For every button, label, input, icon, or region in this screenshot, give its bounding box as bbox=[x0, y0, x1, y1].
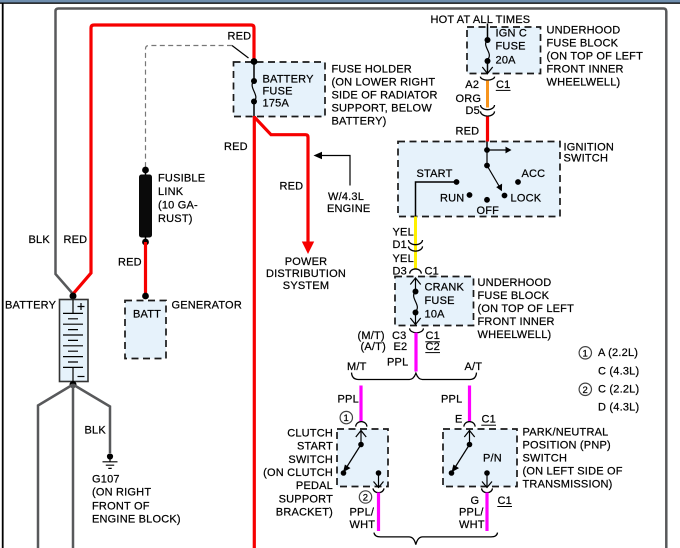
split brace M/T A/T bbox=[352, 373, 477, 380]
svg-text:RUST): RUST) bbox=[158, 213, 193, 225]
svg-text:BATTERY: BATTERY bbox=[263, 74, 315, 86]
wire BLK negative to ground bbox=[73, 385, 110, 454]
wire PPL/WHT from PNP switch bbox=[485, 493, 488, 532]
svg-text:A/T: A/T bbox=[465, 361, 483, 373]
svg-text:ENGINE BLOCK): ENGINE BLOCK) bbox=[92, 514, 181, 526]
svg-text:YEL: YEL bbox=[393, 253, 414, 265]
svg-text:M/T: M/T bbox=[347, 361, 367, 373]
ignition switch box bbox=[398, 142, 560, 217]
leader line to fuse node bbox=[232, 46, 249, 59]
svg-text:D1: D1 bbox=[393, 239, 407, 251]
PNP switch output terminal bbox=[484, 470, 490, 476]
svg-text:LOCK: LOCK bbox=[511, 193, 542, 205]
inline connector D1 arcs bbox=[409, 240, 423, 251]
svg-text:START: START bbox=[417, 168, 453, 180]
svg-text:D (4.3L): D (4.3L) bbox=[598, 401, 639, 413]
underhood fuse block box (CRANK FUSE) bbox=[395, 277, 474, 326]
svg-text:RED: RED bbox=[118, 257, 142, 269]
svg-text:10A: 10A bbox=[425, 309, 446, 321]
svg-text:D3: D3 bbox=[393, 265, 407, 277]
svg-text:PPL: PPL bbox=[387, 356, 408, 368]
wire RED to ignition switch bbox=[486, 117, 489, 142]
wire RED branch to power distribution bbox=[254, 117, 308, 244]
svg-text:PARK/NEUTRAL: PARK/NEUTRAL bbox=[523, 427, 609, 439]
wire BLK negative fan middle bbox=[72, 385, 75, 548]
svg-text:C2: C2 bbox=[426, 341, 440, 353]
fuse F battery 175A element bbox=[253, 62, 255, 81]
svg-text:BLK: BLK bbox=[29, 234, 51, 246]
node generator BATT terminal bbox=[142, 293, 149, 300]
svg-text:1: 1 bbox=[583, 348, 588, 359]
svg-text:C1: C1 bbox=[496, 79, 510, 91]
svg-text:FUSIBLE: FUSIBLE bbox=[158, 173, 205, 185]
svg-text:E2: E2 bbox=[394, 341, 408, 353]
crank fuse input arrow bbox=[410, 278, 420, 292]
clutch switch blade bbox=[346, 445, 362, 470]
wire PPL from crank fuse bbox=[414, 333, 417, 372]
svg-text:CRANK: CRANK bbox=[425, 281, 465, 293]
underhood fuse block box (IGN C FUSE) bbox=[467, 27, 541, 74]
svg-text:RED: RED bbox=[64, 234, 88, 246]
svg-text:WHT: WHT bbox=[350, 519, 376, 531]
svg-text:C1: C1 bbox=[425, 265, 439, 277]
svg-text:FRONT INNER: FRONT INNER bbox=[547, 64, 624, 76]
dashed leader to fusible link bbox=[146, 46, 233, 168]
clutch start switch box bbox=[337, 429, 388, 487]
svg-text:IGN C: IGN C bbox=[496, 27, 528, 39]
rotor blade toward LOCK bbox=[487, 166, 501, 190]
svg-text:SWITCH: SWITCH bbox=[288, 454, 333, 466]
svg-text:BLK: BLK bbox=[85, 425, 107, 437]
circled 2 pin marker bbox=[359, 491, 371, 503]
battery plates symbol bbox=[72, 300, 74, 314]
arrowhead to power distribution system bbox=[302, 242, 314, 255]
connector arc below clutch switch bbox=[373, 488, 384, 492]
wire BLK negative fan left bbox=[38, 385, 73, 548]
wire ORG bbox=[486, 81, 489, 108]
svg-text:YEL: YEL bbox=[393, 227, 414, 239]
svg-text:A (2.2L): A (2.2L) bbox=[598, 347, 638, 359]
svg-text:P/N: P/N bbox=[483, 453, 502, 465]
svg-text:BATTERY): BATTERY) bbox=[332, 116, 387, 128]
top chrome bar bbox=[0, 0, 680, 3]
connector arc below crank fuse bbox=[410, 328, 424, 332]
svg-text:RUN: RUN bbox=[440, 193, 464, 205]
svg-text:(10 GA-: (10 GA- bbox=[158, 200, 198, 212]
svg-text:D5: D5 bbox=[466, 105, 480, 117]
plus terminal label bbox=[78, 303, 85, 310]
svg-text:G: G bbox=[471, 495, 480, 507]
wire START output bbox=[416, 182, 457, 217]
connector arrow out (C1) bbox=[482, 67, 492, 74]
svg-text:DISTRIBUTION: DISTRIBUTION bbox=[266, 268, 346, 280]
svg-text:RED: RED bbox=[456, 125, 480, 137]
PNP switch input arrow bbox=[464, 430, 474, 444]
svg-text:FUSE BLOCK: FUSE BLOCK bbox=[478, 290, 550, 302]
clutch switch output terminal bbox=[376, 470, 382, 476]
svg-text:SUPPORT: SUPPORT bbox=[279, 493, 333, 505]
minus terminal label bbox=[78, 376, 85, 378]
svg-text:PEDAL: PEDAL bbox=[296, 480, 333, 492]
node clutch switch contact bbox=[341, 470, 347, 476]
svg-text:POSITION (PNP): POSITION (PNP) bbox=[523, 440, 611, 452]
merge brace at bottom bbox=[374, 533, 498, 545]
ignition switch internals bbox=[486, 142, 488, 151]
node clutch switch common bbox=[358, 442, 364, 448]
svg-text:HOT AT ALL TIMES: HOT AT ALL TIMES bbox=[431, 14, 531, 26]
svg-text:C (4.3L): C (4.3L) bbox=[598, 366, 639, 378]
svg-text:RED: RED bbox=[228, 31, 252, 43]
svg-text:C1: C1 bbox=[498, 495, 512, 507]
svg-text:PPL/: PPL/ bbox=[459, 507, 484, 519]
W/4.3L ENGINE pointer arrow bbox=[320, 156, 350, 186]
svg-text:PPL: PPL bbox=[338, 394, 359, 406]
svg-text:SWITCH: SWITCH bbox=[564, 153, 609, 165]
park/neutral position switch box bbox=[443, 429, 517, 487]
svg-text:RED: RED bbox=[280, 181, 304, 193]
svg-text:RED: RED bbox=[224, 141, 248, 153]
node ignition feed bbox=[484, 147, 490, 153]
wire RED fusible link to generator bbox=[144, 242, 147, 294]
legend circled 1 bbox=[579, 347, 591, 359]
connector C1 arc at crank fuse bbox=[410, 269, 422, 274]
generator BATT box bbox=[125, 301, 166, 359]
svg-text:FUSE HOLDER: FUSE HOLDER bbox=[332, 64, 412, 76]
connector arc below PNP switch bbox=[482, 488, 493, 492]
inline connector D5 arcs bbox=[481, 105, 495, 116]
ign c fuse feed tick bbox=[487, 24, 489, 29]
svg-text:WHEELWELL): WHEELWELL) bbox=[478, 329, 552, 341]
ground G107 bbox=[107, 453, 113, 459]
svg-text:PPL/: PPL/ bbox=[350, 507, 375, 519]
svg-text:ENGINE: ENGINE bbox=[327, 203, 370, 215]
fuse F CRANK 10A element bbox=[413, 289, 419, 295]
svg-text:(A/T): (A/T) bbox=[361, 341, 386, 353]
svg-text:BATT: BATT bbox=[133, 309, 161, 321]
wire YEL start signal bbox=[414, 217, 417, 270]
svg-text:(ON RIGHT: (ON RIGHT bbox=[92, 487, 151, 499]
svg-text:C1: C1 bbox=[482, 414, 496, 426]
fusible link FL (10 GA) bbox=[142, 167, 149, 174]
svg-text:LINK: LINK bbox=[158, 186, 184, 198]
node battery positive terminal bbox=[70, 293, 77, 300]
left border bbox=[2, 3, 4, 548]
svg-text:FUSE BLOCK: FUSE BLOCK bbox=[547, 38, 619, 50]
circled 1 pin marker bbox=[340, 411, 352, 423]
node battery negative terminal bbox=[70, 381, 77, 388]
svg-text:ACC: ACC bbox=[522, 168, 546, 180]
connector arc PNP switch bbox=[464, 422, 475, 427]
wire RED battery positive feed bbox=[73, 25, 254, 294]
svg-text:(ON LOWER RIGHT: (ON LOWER RIGHT bbox=[332, 77, 436, 89]
wire PPL M/T branch bbox=[359, 386, 362, 422]
node PNP switch contact bbox=[449, 470, 455, 476]
accessory feed arrow bbox=[487, 149, 506, 151]
svg-text:BRACKET): BRACKET) bbox=[276, 507, 333, 519]
svg-text:UNDERHOOD: UNDERHOOD bbox=[547, 25, 621, 37]
svg-text:FUSE: FUSE bbox=[496, 41, 526, 53]
connector C1 arc bbox=[480, 77, 494, 81]
svg-text:SYSTEM: SYSTEM bbox=[283, 280, 329, 292]
svg-text:(ON CLUTCH: (ON CLUTCH bbox=[263, 467, 333, 479]
svg-text:C (2.2L): C (2.2L) bbox=[598, 384, 639, 396]
svg-text:2: 2 bbox=[583, 385, 588, 396]
svg-text:FUSE: FUSE bbox=[425, 295, 455, 307]
PNP switch blade bbox=[454, 445, 470, 470]
svg-text:ORG: ORG bbox=[456, 93, 482, 105]
wire PPL A/T branch bbox=[468, 386, 471, 422]
wire RED main vertical below battery fuse bbox=[253, 116, 256, 548]
svg-text:FRONT INNER: FRONT INNER bbox=[478, 316, 555, 328]
svg-text:W/4.3L: W/4.3L bbox=[328, 191, 364, 203]
clutch switch input arrow bbox=[356, 430, 366, 444]
svg-text:(ON LEFT SIDE OF: (ON LEFT SIDE OF bbox=[523, 466, 623, 478]
node battery fuse top bbox=[251, 58, 258, 65]
svg-text:A2: A2 bbox=[465, 79, 479, 91]
svg-text:2: 2 bbox=[363, 493, 368, 504]
svg-text:1: 1 bbox=[344, 413, 349, 424]
svg-text:START: START bbox=[297, 441, 333, 453]
connector arc clutch switch bbox=[356, 422, 367, 427]
svg-text:SIDE OF RADIATOR: SIDE OF RADIATOR bbox=[332, 90, 438, 102]
svg-text:TRANSMISSION): TRANSMISSION) bbox=[523, 479, 613, 491]
svg-text:BATTERY: BATTERY bbox=[5, 300, 57, 312]
svg-text:POWER: POWER bbox=[285, 256, 328, 268]
fuse holder box (battery fuse) bbox=[234, 62, 326, 117]
svg-text:UNDERHOOD: UNDERHOOD bbox=[478, 277, 552, 289]
svg-text:SUPPORT, BELOW: SUPPORT, BELOW bbox=[332, 103, 433, 115]
svg-text:FUSE: FUSE bbox=[263, 86, 293, 98]
node PNP switch common bbox=[467, 442, 473, 448]
svg-text:20A: 20A bbox=[496, 55, 517, 67]
svg-text:CLUTCH: CLUTCH bbox=[287, 427, 333, 439]
svg-text:WHEELWELL): WHEELWELL) bbox=[547, 77, 621, 89]
svg-text:WHT: WHT bbox=[459, 519, 485, 531]
svg-text:OFF: OFF bbox=[477, 205, 500, 217]
node ignition rotor pivot bbox=[484, 163, 490, 169]
fuse F IGN C 20A element bbox=[487, 27, 489, 40]
svg-text:PPL: PPL bbox=[441, 394, 462, 406]
svg-text:FRONT OF: FRONT OF bbox=[92, 501, 150, 513]
svg-text:E: E bbox=[455, 414, 463, 426]
wire PPL/WHT from clutch switch bbox=[377, 493, 380, 532]
legend circled 2 bbox=[579, 383, 591, 395]
svg-text:SWITCH: SWITCH bbox=[523, 453, 568, 465]
svg-text:175A: 175A bbox=[263, 98, 290, 110]
svg-text:(ON TOP OF LEFT: (ON TOP OF LEFT bbox=[547, 51, 644, 63]
svg-text:G107: G107 bbox=[92, 474, 120, 486]
svg-text:GENERATOR: GENERATOR bbox=[172, 300, 242, 312]
svg-text:(ON TOP OF LEFT: (ON TOP OF LEFT bbox=[478, 303, 575, 315]
